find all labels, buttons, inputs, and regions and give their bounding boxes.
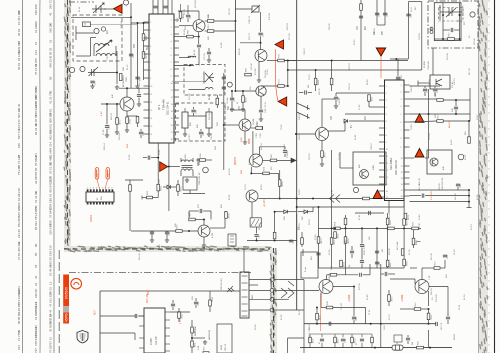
dashed osc box xyxy=(184,65,225,96)
ceramic filter xyxy=(182,112,188,128)
wire xyxy=(274,298,280,300)
wire xyxy=(187,18,189,22)
svg-text:01: 01 xyxy=(356,343,358,345)
capacitor xyxy=(90,81,94,83)
IC2 left pin xyxy=(379,127,385,129)
resistor xyxy=(189,218,196,221)
IC1 right pin xyxy=(174,124,179,126)
svg-text:76 74: 76 74 xyxy=(245,184,247,190)
svg-text:3R85: 3R85 xyxy=(146,35,148,41)
IC2 left pin xyxy=(379,113,385,115)
wire xyxy=(116,124,118,130)
wire xyxy=(274,289,280,291)
IC501 pin pad xyxy=(112,202,114,205)
rail xyxy=(376,228,378,268)
IC2 right pin xyxy=(404,98,410,100)
IC2 left pin xyxy=(379,120,385,122)
wire xyxy=(260,36,262,49)
IC501 pin pad xyxy=(93,202,95,205)
junction xyxy=(191,337,193,339)
junction xyxy=(331,227,333,229)
transistor T5b xyxy=(250,154,263,167)
svg-text:2801-4800-02: 2801-4800-02 xyxy=(395,159,398,175)
svg-text:356 95: 356 95 xyxy=(329,23,331,30)
svg-text:3R27: 3R27 xyxy=(371,96,373,102)
wire xyxy=(151,234,153,238)
osc coil xyxy=(205,87,213,89)
wire xyxy=(258,198,404,200)
wire xyxy=(297,206,404,208)
svg-text:523 99: 523 99 xyxy=(447,53,449,60)
wire xyxy=(180,158,182,162)
wire xyxy=(455,100,457,106)
ceramic filter tick xyxy=(208,108,210,112)
wire xyxy=(333,286,354,288)
IC2 right pin xyxy=(404,91,410,93)
junction xyxy=(331,60,333,62)
capacitor xyxy=(194,302,198,304)
svg-text:61: 61 xyxy=(49,39,53,43)
capacitor xyxy=(383,13,387,15)
capacitor xyxy=(320,339,324,341)
svg-text:1R45: 1R45 xyxy=(337,338,339,344)
wire xyxy=(100,315,135,317)
capacitor xyxy=(396,77,400,79)
svg-text:31 22: 31 22 xyxy=(465,154,467,160)
IC2 right pin xyxy=(404,129,410,131)
svg-text:713 69: 713 69 xyxy=(429,133,431,140)
tick xyxy=(262,126,264,130)
svg-text:54: 54 xyxy=(17,330,21,334)
trimmer cap xyxy=(446,8,456,17)
coil can xyxy=(301,252,318,278)
wire xyxy=(249,284,258,286)
svg-text:2R06: 2R06 xyxy=(228,213,230,219)
wire xyxy=(410,157,415,159)
wire xyxy=(191,347,193,353)
margin rule line xyxy=(53,0,55,353)
wire xyxy=(188,115,206,117)
C609 pin xyxy=(139,347,144,349)
wire xyxy=(140,129,142,131)
junction xyxy=(295,133,297,135)
svg-text:712 80: 712 80 xyxy=(339,153,341,160)
connector pin xyxy=(242,315,248,317)
junction xyxy=(223,124,225,126)
resistor xyxy=(314,78,317,85)
wire xyxy=(157,191,159,198)
svg-text:41 45: 41 45 xyxy=(194,49,196,55)
dashed tuner box xyxy=(73,15,122,61)
IC1 left pin xyxy=(144,117,150,119)
resistor xyxy=(187,35,194,38)
shield emblem xyxy=(77,331,88,344)
svg-text:33: 33 xyxy=(17,241,21,245)
shield emblem inner xyxy=(80,333,86,341)
junction xyxy=(345,227,347,229)
wire xyxy=(360,0,362,61)
capacitor xyxy=(165,232,169,234)
IC501 pin pad xyxy=(99,202,101,205)
svg-text:94 30: 94 30 xyxy=(249,159,251,165)
LED xyxy=(227,286,234,292)
capacitor xyxy=(422,194,424,198)
IC1 right pin xyxy=(174,40,179,42)
ground xyxy=(241,107,245,111)
wire xyxy=(296,133,316,135)
wire xyxy=(363,274,370,276)
wire xyxy=(340,167,353,169)
left border shading xyxy=(64,0,71,248)
wire xyxy=(310,333,372,335)
wire xyxy=(200,129,202,131)
svg-text:116 58: 116 58 xyxy=(455,193,457,200)
capacitor xyxy=(129,54,133,56)
wire xyxy=(100,332,135,334)
svg-text:431 84: 431 84 xyxy=(269,13,271,20)
wire xyxy=(130,3,132,60)
IC501 pin pad xyxy=(90,202,92,205)
resistor xyxy=(330,274,337,277)
wire xyxy=(280,309,304,311)
IC1 top pin xyxy=(167,0,169,14)
wire xyxy=(390,58,408,60)
wire xyxy=(284,85,288,87)
wire xyxy=(425,195,469,197)
wire xyxy=(321,99,323,127)
svg-text:093 33: 093 33 xyxy=(225,103,227,110)
svg-text:675 09: 675 09 xyxy=(359,283,361,290)
wire xyxy=(244,131,246,140)
svg-text:8R83: 8R83 xyxy=(416,239,418,245)
antenna trimmer xyxy=(92,3,106,13)
IC1 right pin xyxy=(174,110,179,112)
junction xyxy=(130,16,132,18)
connector pin xyxy=(242,296,248,298)
resistor xyxy=(200,159,206,162)
wire xyxy=(214,20,236,22)
resistor xyxy=(203,352,209,353)
wire xyxy=(287,211,296,213)
svg-text:24: 24 xyxy=(34,282,38,286)
svg-text:29 25: 29 25 xyxy=(245,124,247,130)
wire xyxy=(251,202,253,217)
svg-text:025 99: 025 99 xyxy=(474,38,476,45)
junction xyxy=(231,90,233,92)
svg-text:68: 68 xyxy=(49,76,53,80)
svg-text:745 45: 745 45 xyxy=(211,133,213,140)
junction xyxy=(442,38,444,40)
wire xyxy=(143,23,145,80)
wire xyxy=(180,171,182,176)
capacitor xyxy=(150,232,154,234)
wire xyxy=(274,212,276,233)
wire xyxy=(410,267,417,269)
wire xyxy=(101,103,120,105)
wire xyxy=(443,29,450,31)
IC2 right pin xyxy=(404,105,410,107)
IC501 pin pad xyxy=(105,202,107,205)
svg-text:D605: D605 xyxy=(221,344,223,350)
red flag marker xyxy=(275,40,284,49)
wire xyxy=(335,93,337,96)
wire xyxy=(153,197,159,199)
svg-text:744 34: 744 34 xyxy=(339,98,341,105)
svg-text:C 609: C 609 xyxy=(150,338,153,345)
svg-text:2SC460: 2SC460 xyxy=(195,0,197,8)
wire xyxy=(447,287,449,317)
wire xyxy=(351,246,353,250)
dashed IF box xyxy=(176,103,226,141)
capacitor xyxy=(360,261,364,263)
capacitor xyxy=(456,184,460,186)
resistor xyxy=(317,237,320,244)
wire xyxy=(91,37,97,39)
wire xyxy=(183,193,205,195)
svg-text:3.3K: 3.3K xyxy=(198,345,200,350)
IC1 left pin xyxy=(144,125,150,127)
svg-text:10 98: 10 98 xyxy=(221,42,223,48)
svg-text:21: 21 xyxy=(17,206,21,210)
wire xyxy=(353,320,355,324)
discriminator box xyxy=(430,75,450,89)
ground xyxy=(207,58,211,62)
transistor in box xyxy=(436,79,442,86)
svg-text:547 10: 547 10 xyxy=(454,78,456,85)
resistor xyxy=(330,78,333,85)
resistor xyxy=(437,120,444,123)
rail xyxy=(223,73,225,170)
red bar gray gap xyxy=(63,306,69,313)
capacitor xyxy=(454,107,458,109)
wire xyxy=(455,38,460,40)
rail xyxy=(387,213,389,268)
bottom border shading xyxy=(64,246,272,252)
svg-text:20 76: 20 76 xyxy=(49,175,53,183)
svg-text:88 81: 88 81 xyxy=(49,108,53,116)
IC501 pin pad xyxy=(93,189,95,192)
svg-text:7R99: 7R99 xyxy=(431,314,433,320)
svg-text:08: 08 xyxy=(17,40,21,44)
ground xyxy=(230,107,234,111)
svg-text:9R16: 9R16 xyxy=(282,181,284,187)
svg-text:32 686: 32 686 xyxy=(34,175,38,184)
IC1 top pin xyxy=(157,0,159,14)
rail xyxy=(168,143,170,211)
svg-text:004 43: 004 43 xyxy=(17,286,21,295)
ground xyxy=(125,128,129,132)
svg-text:28 94: 28 94 xyxy=(17,28,21,36)
resistor xyxy=(242,96,245,103)
capacitor xyxy=(222,87,226,89)
resistor xyxy=(388,295,391,302)
inner box xyxy=(434,3,461,41)
IC501 pin pad xyxy=(87,202,89,205)
wire xyxy=(195,298,197,301)
IC2 left pin xyxy=(379,183,385,185)
capacitor xyxy=(222,77,226,79)
capacitor xyxy=(137,95,141,97)
capacitor xyxy=(259,110,263,112)
svg-text:821 45: 821 45 xyxy=(431,253,433,260)
IC2 left pin xyxy=(379,92,385,94)
svg-text:51: 51 xyxy=(34,41,38,45)
wire xyxy=(376,0,378,25)
capacitor xyxy=(153,6,157,8)
wire xyxy=(407,341,409,344)
resistor xyxy=(178,312,181,319)
wire xyxy=(98,72,117,74)
svg-text:235 42: 235 42 xyxy=(121,21,123,28)
IC1 top pin xyxy=(162,0,164,14)
IC2 right pin xyxy=(404,137,410,139)
wire xyxy=(296,214,298,246)
junction xyxy=(318,206,320,208)
junction xyxy=(442,14,444,16)
transistor Q in box xyxy=(360,170,369,179)
svg-text:403 53: 403 53 xyxy=(349,63,351,70)
svg-text:619 00: 619 00 xyxy=(139,253,141,260)
IC2 right pin xyxy=(404,171,410,173)
wire xyxy=(130,60,132,88)
svg-text:79 075: 79 075 xyxy=(34,58,38,67)
svg-text:183 26: 183 26 xyxy=(411,85,413,92)
wire xyxy=(428,330,430,348)
wire xyxy=(193,36,198,38)
junction xyxy=(287,85,289,87)
capacitor xyxy=(163,6,167,8)
IC1 TDA440 xyxy=(149,14,174,143)
wire xyxy=(413,245,415,248)
resistor xyxy=(116,118,119,125)
capacitor xyxy=(197,45,201,47)
IC2 right pin xyxy=(404,165,410,167)
wire xyxy=(214,30,236,32)
wire xyxy=(106,104,108,124)
svg-text:984 11: 984 11 xyxy=(454,333,456,340)
svg-text:84 26: 84 26 xyxy=(261,184,263,190)
svg-text:858 27: 858 27 xyxy=(259,223,261,230)
svg-text:296 72 92: 296 72 92 xyxy=(49,0,53,9)
svg-text:1R25: 1R25 xyxy=(319,314,321,320)
ground xyxy=(202,243,206,247)
wire xyxy=(326,275,328,280)
resistor xyxy=(278,59,285,62)
resistor xyxy=(448,38,455,41)
svg-text:45/PB: 45/PB xyxy=(65,313,69,322)
svg-text:P can: P can xyxy=(305,267,307,272)
red circle C glyph xyxy=(74,283,79,286)
svg-text:35: 35 xyxy=(49,47,53,51)
svg-text:C612: C612 xyxy=(212,296,214,302)
svg-text:01 34: 01 34 xyxy=(464,294,466,300)
capacitor xyxy=(360,339,364,341)
svg-text:175 54: 175 54 xyxy=(204,53,206,60)
svg-text:809 14: 809 14 xyxy=(104,143,106,150)
wire xyxy=(177,191,179,196)
svg-text:87: 87 xyxy=(319,342,321,344)
IC2 left pin xyxy=(379,106,385,108)
IC1 right pin xyxy=(174,131,179,133)
svg-text:1AA 180: 1AA 180 xyxy=(155,336,158,345)
pin circle xyxy=(270,289,274,293)
red warning triangle xyxy=(376,48,386,56)
wire xyxy=(274,309,280,311)
wire xyxy=(349,120,379,122)
wire xyxy=(410,85,441,87)
resistor xyxy=(334,232,337,239)
wire xyxy=(333,307,366,309)
wire xyxy=(195,305,197,308)
svg-text:36 76: 36 76 xyxy=(389,314,391,320)
ground xyxy=(259,117,263,121)
wire xyxy=(316,308,318,314)
capacitor xyxy=(352,317,356,319)
IC1 top pin xyxy=(152,0,154,14)
wire xyxy=(256,227,258,233)
resistor xyxy=(437,99,444,102)
wire xyxy=(322,98,336,100)
wire xyxy=(210,211,212,220)
svg-text:423 29: 423 29 xyxy=(229,168,231,175)
svg-text:1R05: 1R05 xyxy=(129,118,131,124)
svg-text:701 83: 701 83 xyxy=(341,303,343,310)
svg-text:A17 6.8K: A17 6.8K xyxy=(396,241,399,250)
junction xyxy=(376,227,378,229)
svg-text:07: 07 xyxy=(49,223,53,227)
bus wire xyxy=(288,69,422,71)
red tag text mark xyxy=(107,170,109,178)
resistor xyxy=(147,196,153,199)
page edge shading xyxy=(479,0,488,353)
wire xyxy=(104,8,114,10)
bus wire xyxy=(284,60,408,62)
IC1 right pin xyxy=(174,26,179,28)
resistor xyxy=(363,197,370,200)
svg-text:271 60: 271 60 xyxy=(289,33,291,40)
svg-text:624: 624 xyxy=(17,345,21,350)
wire xyxy=(210,227,225,229)
wire xyxy=(193,107,195,109)
ground xyxy=(257,78,261,82)
wire xyxy=(140,135,142,138)
connector pin xyxy=(242,310,248,312)
wire xyxy=(134,333,136,340)
svg-text:88 69: 88 69 xyxy=(367,79,369,85)
wire xyxy=(443,120,470,122)
red flag marker xyxy=(278,97,287,106)
rail xyxy=(459,3,461,41)
junction xyxy=(260,42,262,44)
junction xyxy=(203,219,205,221)
wire xyxy=(280,298,289,300)
svg-text:75: 75 xyxy=(34,206,38,210)
IC501 pin pad xyxy=(87,189,89,192)
wire xyxy=(328,130,345,132)
IC501 pin pad xyxy=(105,189,107,192)
svg-text:0R72: 0R72 xyxy=(119,119,121,125)
wire xyxy=(197,158,199,166)
svg-text:E 111: E 111 xyxy=(212,232,214,238)
svg-text:MV 1.9V: MV 1.9V xyxy=(146,293,149,303)
wire xyxy=(263,159,271,161)
IC1 left pin xyxy=(144,45,150,47)
wire xyxy=(126,111,128,117)
red warning triangle xyxy=(373,190,382,199)
junction xyxy=(468,189,470,191)
IC2 xyxy=(385,80,405,201)
svg-text:163: 163 xyxy=(34,50,38,55)
